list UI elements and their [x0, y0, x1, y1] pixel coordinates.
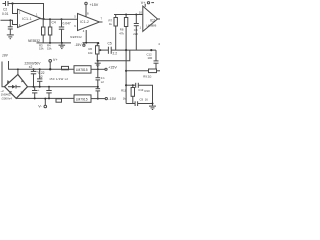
bridge rectifier — [5, 75, 28, 99]
capacitor C10 — [135, 83, 137, 88]
diode lower-left — [9, 91, 12, 94]
resistor R9 — [149, 69, 157, 73]
resistor R6 — [96, 43, 98, 46]
ground — [61, 43, 63, 45]
diode center — [8, 86, 12, 88]
diode upper-right — [21, 79, 24, 82]
svg-text:+15V: +15V — [108, 66, 117, 70]
capacitor 0.22 upper — [39, 68, 41, 70]
capacitor 0.22 lower — [48, 86, 50, 88]
wire top feedback — [3, 3, 6, 5]
svg-text:C4: C4 — [52, 20, 56, 24]
capacitor C2 — [5, 1, 7, 6]
node — [61, 42, 63, 44]
svg-text:15k: 15k — [39, 47, 44, 51]
resistor R8 — [125, 14, 127, 16]
terminal -15V — [83, 44, 85, 46]
op-amp IC1-2 — [78, 14, 100, 31]
svg-text:+15V: +15V — [90, 3, 99, 7]
capacitor C12 — [155, 50, 157, 61]
capacitor C4 — [61, 18, 63, 20]
ground — [7, 34, 14, 36]
svg-text:-15V: -15V — [75, 43, 83, 47]
terminal +15V out — [105, 68, 107, 70]
svg-text:15k: 15k — [47, 47, 52, 51]
node — [49, 42, 51, 44]
ground — [149, 105, 156, 107]
wire V+ rail — [9, 61, 75, 69]
wire output row — [126, 70, 148, 72]
wire rail V+amp — [114, 14, 143, 16]
wire — [126, 84, 135, 86]
capacitor 0.1 upper — [97, 61, 99, 78]
wire — [91, 98, 105, 100]
svg-text:IC2: IC2 — [150, 19, 155, 23]
resistor 150 lower — [56, 99, 62, 102]
diode lower-right — [21, 92, 24, 95]
svg-text:LM3886: LM3886 — [146, 24, 157, 28]
svg-text:C5: C5 — [108, 42, 112, 46]
wire ground bus left — [37, 42, 72, 44]
capacitor 22000u lower — [34, 87, 36, 91]
wire AC left — [2, 62, 5, 87]
terminal -15V out — [105, 98, 107, 100]
wire output stub — [100, 21, 103, 23]
svg-text:x2: x2 — [101, 80, 104, 84]
svg-text:LM7815: LM7815 — [76, 68, 88, 72]
svg-text:0.01: 0.01 — [2, 12, 9, 16]
svg-text:10: 10 — [139, 11, 143, 15]
svg-text:x2: x2 — [39, 75, 43, 79]
svg-text:C9: C9 — [140, 98, 144, 102]
svg-text:0.047: 0.047 — [63, 22, 71, 26]
resistor R3 — [42, 19, 44, 27]
op-amp IC1-1 — [18, 9, 41, 27]
wire inverting input — [13, 4, 18, 14]
svg-text:C2: C2 — [3, 8, 7, 12]
node row on signal wire — [125, 49, 127, 51]
wire V- rail — [16, 97, 74, 99]
wire signal mid — [99, 49, 108, 51]
capacitor input shunt — [9, 20, 11, 26]
capacitor C5 — [107, 47, 109, 54]
node junction — [11, 2, 13, 4]
regulator LM7815 — [74, 66, 91, 73]
svg-text:R10: R10 — [145, 89, 151, 93]
svg-text:220: 220 — [133, 32, 138, 36]
resistor R11 — [132, 84, 134, 86]
wire bridge top — [17, 69, 19, 74]
svg-text:2.2: 2.2 — [113, 52, 118, 56]
svg-text:47k: 47k — [119, 31, 124, 35]
svg-text:R11: R11 — [121, 89, 126, 93]
capacitor 0.1 lower — [96, 88, 101, 90]
wire — [138, 85, 152, 106]
wire pin4 down — [85, 30, 87, 43]
diode upper-left — [7, 80, 10, 83]
capacitor 22000u upper — [33, 68, 35, 70]
svg-text:NE5532: NE5532 — [70, 35, 82, 39]
svg-text:x2: x2 — [29, 65, 33, 69]
op-amp IC2 — [143, 6, 158, 31]
wire bottom — [126, 103, 135, 105]
capacitor C8 — [135, 14, 137, 16]
svg-text:/200Vx4: /200Vx4 — [2, 97, 13, 101]
svg-text:22000/50V: 22000/50V — [25, 61, 42, 65]
wire V+ pin — [144, 4, 146, 7]
svg-text:C13: C13 — [138, 88, 144, 92]
wire input — [1, 20, 18, 24]
svg-text:150 1/2W x2: 150 1/2W x2 — [49, 77, 68, 81]
wire signal to IC1-2 — [41, 18, 78, 20]
wire output bus down — [125, 50, 127, 103]
capacitor C9 — [134, 101, 136, 106]
wire — [8, 4, 44, 19]
svg-text:100: 100 — [148, 56, 153, 60]
svg-text:18V: 18V — [2, 53, 9, 57]
resistor R4 — [49, 18, 51, 20]
node — [9, 19, 11, 21]
svg-text:10k: 10k — [88, 51, 93, 55]
node output junction — [42, 18, 44, 20]
svg-text:LM7915: LM7915 — [76, 97, 88, 101]
svg-text:-15V: -15V — [108, 97, 116, 101]
wire output stub — [158, 18, 161, 20]
svg-text:IC1-2: IC1-2 — [80, 20, 89, 24]
svg-text:R9 2Ω: R9 2Ω — [143, 74, 151, 78]
svg-text:16: 16 — [145, 98, 149, 102]
regulator LM7915 — [74, 95, 91, 102]
wire gnd rail to output corner — [98, 50, 130, 61]
terminal +15V — [85, 2, 87, 4]
svg-text:V+: V+ — [53, 58, 58, 62]
wire — [85, 5, 87, 17]
wire gnd rail — [28, 86, 98, 88]
resistor 150 upper — [62, 66, 69, 69]
wire — [91, 68, 105, 70]
svg-text:4: 4 — [158, 42, 160, 46]
terminal V+ — [49, 60, 52, 63]
resistor R7 — [115, 15, 117, 18]
ground — [95, 62, 101, 64]
svg-text:IC1-1: IC1-1 — [22, 17, 32, 21]
